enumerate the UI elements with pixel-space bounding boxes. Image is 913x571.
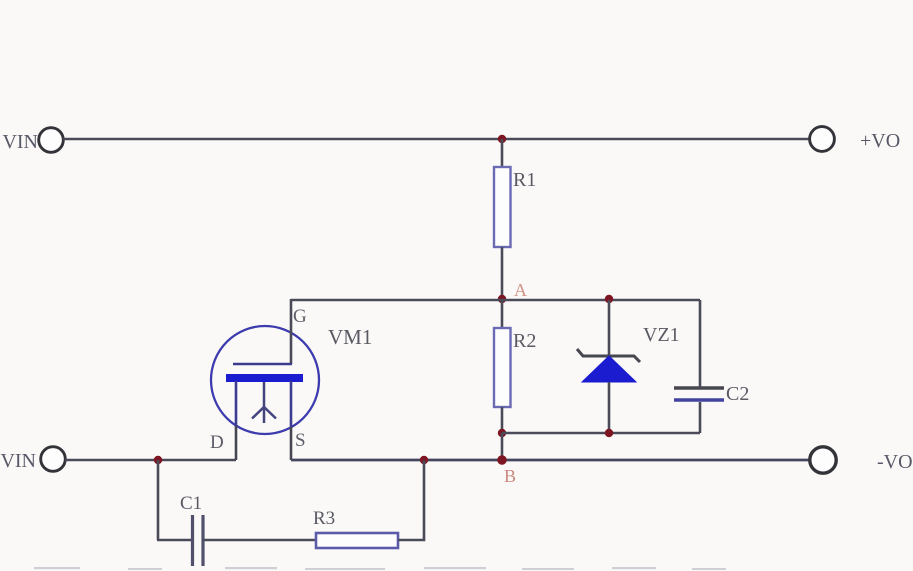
wire C1 to R3 bbox=[203, 539, 316, 542]
node A bbox=[498, 280, 527, 303]
wire bottom rail left (to drain) bbox=[65, 459, 236, 462]
substrate arrow bbox=[252, 382, 276, 423]
svg-text:C2: C2 bbox=[726, 383, 749, 405]
junction C1 branch left bbox=[154, 456, 162, 464]
capacitor C1 bbox=[180, 493, 203, 566]
terminal +VO bbox=[810, 127, 901, 152]
svg-text:G: G bbox=[293, 306, 307, 327]
resistor R3 bbox=[313, 508, 398, 548]
source lead bbox=[290, 381, 293, 428]
drain lead bbox=[235, 381, 238, 427]
svg-text:VIN: VIN bbox=[2, 131, 38, 153]
svg-text:S: S bbox=[295, 430, 306, 451]
terminal -VO bbox=[810, 447, 913, 473]
wire top rail bbox=[63, 138, 811, 141]
zener cathode bar with bent tips bbox=[577, 349, 640, 362]
wire inner top rail bbox=[291, 299, 700, 302]
faint cut-off caption at bottom bbox=[34, 567, 726, 570]
svg-text:VM1: VM1 bbox=[328, 325, 372, 349]
svg-text:C1: C1 bbox=[180, 493, 202, 514]
svg-text:+VO: +VO bbox=[860, 130, 900, 152]
svg-text:R2: R2 bbox=[513, 330, 536, 352]
svg-text:D: D bbox=[210, 432, 224, 453]
anode triangle bbox=[582, 356, 636, 382]
terminal +VIN bbox=[2, 128, 63, 153]
wire C1 branch bottom left bbox=[157, 539, 192, 542]
resistor R1 bbox=[494, 139, 536, 299]
svg-text:VZ1: VZ1 bbox=[643, 324, 680, 346]
resistor R2 bbox=[494, 300, 536, 433]
transistor VM1 (depletion MOSFET) bbox=[210, 299, 372, 460]
zener diode VZ1 bbox=[577, 300, 680, 433]
svg-text:A: A bbox=[514, 280, 527, 300]
gate lead from top rail bbox=[290, 299, 293, 364]
junction VZ1 bottom bbox=[605, 429, 613, 437]
junction top of R1 bbox=[498, 135, 506, 143]
gate plate line bbox=[233, 363, 292, 365]
wire R3 to right junction bbox=[398, 460, 424, 540]
junction node below R2 bbox=[498, 429, 506, 437]
svg-text:R3: R3 bbox=[313, 508, 335, 529]
svg-text:VIN: VIN bbox=[0, 450, 36, 472]
junction C1 branch right bbox=[420, 456, 428, 464]
wire mid rail (bottom of VZ1/C2 box) bbox=[502, 432, 700, 435]
capacitor C2 bbox=[674, 300, 749, 433]
terminal -VIN bbox=[0, 447, 65, 472]
wire bottom rail right (source to -VO) bbox=[291, 459, 810, 462]
channel bar bbox=[226, 374, 303, 382]
svg-text:-VO: -VO bbox=[877, 451, 913, 473]
svg-text:B: B bbox=[504, 466, 516, 486]
wire R2 bottom to node B bbox=[501, 433, 504, 460]
wire C1 branch left vertical bbox=[157, 460, 160, 540]
junction VZ1 top bbox=[605, 295, 613, 303]
node B bbox=[497, 455, 516, 486]
svg-text:R1: R1 bbox=[513, 169, 536, 191]
